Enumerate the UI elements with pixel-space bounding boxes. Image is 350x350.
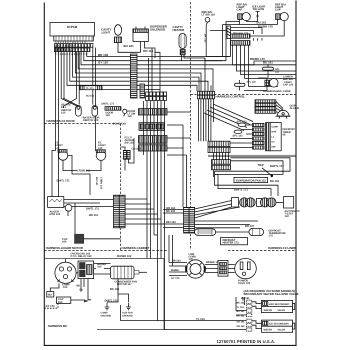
label box evaporator fan [234,177,268,182]
label overload PTC relay [71,252,93,258]
svg-text:CAP: CAP [237,9,243,12]
svg-text:WH 163: WH 163 [166,221,176,224]
wire vertical labels LT/BN 163 [95,177,102,190]
connector H1PCB pin strip [54,36,94,41]
border frame left [43,3,45,345]
connector bar B1 [139,109,168,115]
svg-text:BW/TL 173: BW/TL 173 [270,165,284,168]
svg-text:GY 170: GY 170 [46,305,56,308]
svg-text:BU 161: BU 161 [241,297,250,300]
grommet line cord strain relief [186,260,205,278]
svg-text:SPL 173: SPL 173 [237,121,248,124]
connector door splice bar [80,86,103,90]
svg-text:BR 161: BR 161 [89,214,99,217]
connector H1PCB pin boxes row 1 [54,41,93,48]
svg-text:MTR: MTR [272,130,277,133]
timer defrost timer box [266,123,296,151]
svg-text:BR 163: BR 163 [172,260,181,263]
svg-text:SOLENOID: SOLENOID [150,27,165,31]
svg-text:YL 163: YL 163 [237,306,245,309]
svg-text:DN/TL 171: DN/TL 171 [86,207,100,210]
svg-text:SW 120: SW 120 [125,142,135,145]
wire fan-out bus from H1PCB [67,48,254,92]
svg-text:CAP: CAP [275,9,281,12]
box machine compartment MC [44,259,164,330]
wires auger area left [48,150,114,234]
motor evaporator fan winding chain [232,197,294,208]
wires from recept bars down [233,38,297,86]
connector bar B3 [139,136,168,144]
note secondary valve text [244,289,299,296]
svg-text:102: 102 [97,266,102,269]
label automatic t-stat [285,210,300,218]
lamp cap ICE LIGHT YELLOW [252,6,266,16]
divider dashed FZ door [44,123,120,125]
switch water fill capsule 2 [92,106,98,117]
divider dashed auger cabinet [44,249,168,251]
svg-text:122: 122 [285,215,290,218]
wires from bus into control header [160,58,211,91]
svg-text:GROUND: GROUND [122,314,133,317]
svg-text:122: 122 [275,71,280,74]
svg-text:21222122212221: 21222122212221 [55,53,88,56]
svg-text:YL 124: YL 124 [196,318,205,321]
svg-text:120: 120 [106,114,111,117]
svg-text:BU/WH 102: BU/WH 102 [117,255,132,258]
connector valve stack [236,297,252,331]
svg-text:EVAPORATOR FAN 122: EVAPORATOR FAN 122 [236,179,266,182]
svg-text:LT SW 120: LT SW 120 [202,14,216,17]
switch spring fill switch label [61,104,71,115]
connector stack left of timer [253,123,265,149]
svg-text:BR 163: BR 163 [98,53,109,57]
alarm dispenser bell [276,105,299,119]
lamp REF/FZ light right [250,3,288,36]
svg-text:H2O SECONDARY: H2O SECONDARY [269,303,290,306]
svg-text:CAP 120: CAP 120 [283,83,294,86]
thermostat defrost terminator [249,228,286,237]
svg-text:BU 161: BU 161 [124,44,135,48]
svg-text:ALARM: ALARM [290,107,299,110]
connector H1PCB pin boxes row 2 [54,48,90,56]
ground comp ground [101,303,112,318]
svg-text:170: 170 [269,235,274,238]
connector bar B2 pin row [139,123,165,131]
relay PTC start relay [78,261,94,279]
lamp REF/FZ light left [237,3,251,24]
wires evaporator fan loop [215,158,291,196]
svg-text:DEF: DEF [272,145,277,148]
connector tall vertical bar left [130,54,137,98]
wires vertical bundle through bars [144,101,165,329]
svg-text:GY 110: GY 110 [98,61,108,65]
wire bus middle right [191,57,297,98]
svg-text:LT/GN 163: LT/GN 163 [77,169,91,172]
svg-text:RD: RD [77,284,81,287]
connector FZ LT auger switch [121,138,135,171]
svg-text:PLUG 100: PLUG 100 [238,282,251,285]
svg-text:SECONDARY WATER FILL/USE VALVE: SECONDARY WATER FILL/USE VALVE [244,292,299,296]
border frame right [295,1,297,345]
svg-text:LT/BN 163: LT/BN 163 [99,177,102,190]
switch trip thermostat [258,164,285,177]
svg-text:BK 163: BK 163 [237,301,246,304]
wires into cabinet connector from left [163,210,184,228]
valve ICE secondary [262,320,295,332]
wires bundle down right of bars [167,112,191,207]
svg-text:MTR 120: MTR 120 [50,213,61,216]
svg-text:BU/BK 170: BU/BK 170 [258,24,273,28]
solenoid dispenser [133,25,168,92]
svg-text:BU 161: BU 161 [95,177,98,186]
wire bus bottom lower [164,328,246,330]
motor compressor [55,262,76,289]
capacitor CAP 160 MC [50,283,87,303]
lamp lower REF/FZ light [244,76,294,91]
splice SPL 122 [263,64,281,78]
divider dashed horizontal control boundary [191,93,297,95]
svg-text:BU: BU [48,294,52,297]
heater cavity heater [173,25,206,61]
wire bus top right lights [210,16,278,61]
divider dashed vertical cabinet left [120,124,122,251]
connector bar recept lower [231,41,251,46]
svg-text:GN 163: GN 163 [237,325,246,328]
divider solid harness cabinet right [208,155,296,156]
svg-text:BU/BK: BU/BK [171,269,179,272]
svg-text:ICE SECONDARY: ICE SECONDARY [269,323,289,326]
svg-text:1234567890123: 1234567890123 [55,41,87,44]
svg-text:HARNESS CONTROL: HARNESS CONTROL [216,94,245,98]
wires control header down [198,99,213,141]
capacitor CAP 160 auger [62,234,121,243]
relay auger motor start [48,197,64,208]
svg-text:SWITCH 120: SWITCH 120 [83,119,99,122]
connector pin grid center [146,92,167,100]
connector control header pins [197,91,214,98]
heater defrost heater element [195,229,249,236]
wires below compressor relay [77,279,92,300]
label FZ LT auger switch [125,136,135,144]
wire bus bottom YL 124 [121,305,247,321]
svg-text:SPL 123: SPL 123 [233,134,244,137]
divider dashed vertical harness boundary [190,2,192,250]
svg-text:HARNESS-FZ LINER: HARNESS-FZ LINER [268,246,297,250]
svg-text:96: 96 [283,134,286,137]
switch water fill capsule 1 [76,106,82,117]
svg-text:BU 161: BU 161 [86,95,95,98]
svg-text:BR 107: BR 107 [245,225,255,228]
svg-text:HARNESS-MC: HARNESS-MC [48,324,69,328]
valve H2O secondary [262,300,295,312]
wires stack to alarm [276,101,285,114]
splice SPL 107 [235,80,257,91]
wire fan motor down [107,279,129,302]
wire label BU/WH 102 relay [97,263,106,269]
wires diagonal control to timer [204,104,253,131]
svg-text:HEATER 173: HEATER 173 [223,242,240,245]
svg-text:TL 171: TL 171 [86,87,94,90]
svg-text:GROUND: GROUND [101,314,112,317]
divider dashed FZ liner [228,249,296,251]
svg-text:120: 120 [61,111,66,114]
wire GY 170 stub [44,303,58,308]
wires auger connector right fan [125,199,164,224]
svg-text:OR 116: OR 116 [143,49,154,53]
svg-text:BK 163: BK 163 [166,210,176,213]
svg-text:HARNESS-CABINET: HARNESS-CABINET [122,246,150,250]
ground aux fan ground [122,303,133,318]
motor condenser fan [111,266,148,286]
svg-text:DN/TL 171: DN/TL 171 [105,300,119,303]
svg-text:8987657473: 8987657473 [55,45,79,48]
wires cabinet connector fan-out right [195,201,258,228]
splice SPL 173 [237,121,248,127]
lamp cavity light [101,25,141,53]
svg-text:H1PCB: H1PCB [67,25,78,29]
svg-text:HARNESS-AUGER MOTOR: HARNESS-AUGER MOTOR [46,246,84,250]
lamp FZ light right [96,142,106,161]
connector rows center [208,141,231,170]
svg-text:103: 103 [63,286,68,289]
svg-text:160: 160 [62,241,67,244]
motor auger [65,204,72,211]
svg-text:DN/TL 171: DN/TL 171 [102,103,115,106]
svg-text:WATER: WATER [264,329,273,332]
capacitor small BU box [47,292,54,297]
wires through center connector rows [214,153,229,178]
switch door light switch [123,109,136,118]
wires from H1PCB down to freezer door section [56,48,96,152]
svg-text:GY 170: GY 170 [171,277,180,280]
svg-text:SPL 122: SPL 122 [247,81,257,84]
svg-text:HEATER: HEATER [173,28,186,32]
svg-text:VALVE: VALVE [278,329,286,332]
wires timer stack to left [230,125,253,148]
plug power plug 100 [228,258,256,285]
svg-text:LIGHT: LIGHT [102,30,111,34]
svg-text:GN 163: GN 163 [132,148,141,151]
svg-text:BW/TL 173: BW/TL 173 [234,189,248,192]
connector cabinet vertical block [184,207,195,233]
connector bar recept upper [231,34,251,38]
label water stop switch [83,117,100,123]
svg-text:TRIP: TRIP [258,164,264,167]
switch REF/FZ light switch [202,11,216,57]
svg-text:HARNESS-FZ DOOR: HARNESS-FZ DOOR [47,119,76,123]
wires stack to valves [252,302,262,329]
svg-text:BK 163: BK 163 [270,180,280,183]
svg-text:120: 120 [98,147,103,150]
connector auger vertical block [114,195,126,228]
lamp FZ light left [55,142,68,161]
connector H1PCB main box [50,23,95,37]
wires into grommet from left [169,235,187,280]
label box defrost heater [221,238,248,245]
svg-text:DC: DC [272,140,276,143]
svg-text:MOTOR 107: MOTOR 107 [117,283,132,286]
wires relay to fan motor [66,259,111,274]
svg-text:YELLOW: YELLOW [253,8,265,11]
svg-text:BU: BU [80,288,84,291]
svg-text:BK 163: BK 163 [203,34,206,43]
connector bar B4 [139,145,168,151]
connector door term bar [105,107,121,118]
svg-text:120: 120 [128,115,133,118]
label line cord [189,253,197,261]
svg-text:12760701 PRINTED IN U.S.A.: 12760701 PRINTED IN U.S.A. [217,339,276,344]
svg-text:COMP: COMP [272,125,279,128]
connector short vertical pair [140,84,145,98]
svg-text:VALVE: VALVE [278,309,286,312]
wire between FZ lights [63,155,101,195]
svg-text:P.T.C. RELAY 160: P.T.C. RELAY 160 [71,255,93,258]
splice vertical component [227,26,231,39]
svg-text:160: 160 [58,301,63,304]
splice SPL 123 [233,130,244,137]
terminal block line cord [205,261,228,277]
border frame bottom [44,344,296,346]
svg-text:OR 161: OR 161 [237,320,246,323]
label auger motor [50,210,61,216]
svg-text:HARNESS-REF 1 MCR: HARNESS-REF 1 MCR [263,90,291,93]
connector stack right labels [255,100,276,114]
svg-text:WATER: WATER [264,309,273,312]
